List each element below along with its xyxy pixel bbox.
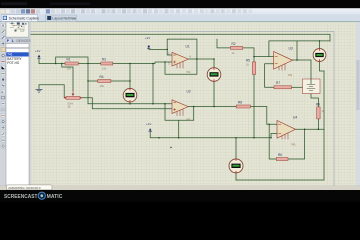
inactive tab: Layout NetView [46,15,77,22]
junction node (130,63.5) [129,63,131,65]
junction node (130,103.8) [129,103,131,105]
voltmeter M3 [313,49,326,62]
wire under U1 loop [165,59,197,74]
wire R7 to battery [292,86,303,88]
status bar [0,186,360,190]
svg-text:U1: U1 [186,45,190,49]
junction node (88,81) [87,80,89,82]
svg-text:R9: R9 [316,103,320,107]
wire ground1 to pot [39,85,66,98]
junction node (171,147.5) [170,147,171,148]
op-amp U2 [172,90,191,122]
junction node (159,137.7) [158,137,160,139]
wire U3 feedback top [269,41,330,57]
filter box [6,43,29,47]
main area background [0,22,360,186]
resistor R9 (vertical) [316,103,325,119]
voltmeter M4 [229,159,243,173]
svg-text:R1: R1 [67,58,71,62]
wire R2 branch [217,39,269,57]
active tab: Schematic Capture [1,15,39,22]
wire U3 pin3 to R7 [265,64,274,88]
op-amp U3 [274,47,293,78]
wire U4 output [296,128,325,130]
bottom black bar with watermark [0,190,360,202]
wire meter M1 vertical [129,64,131,104]
sheet border top [31,31,334,33]
junction node (165,103.8) [164,103,166,105]
resistor R4 [98,75,111,88]
wire U2 loop [165,104,194,121]
junction node (297,60) [296,59,298,61]
wire R3 node down [152,64,154,104]
overview window [6,22,29,37]
resistor R3 [101,58,113,71]
svg-text:MATIC: MATIC [47,194,63,200]
wire meter M4 taps [235,138,237,180]
svg-text:R4: R4 [100,75,104,79]
svg-text:A: A [1,90,3,94]
svg-text:10k: 10k [67,67,72,71]
left icon toolbar [0,22,6,186]
wire U2 loop to bottom rail [178,120,180,137]
power arrow A1 +1V [35,49,41,58]
svg-text:10k: 10k [102,67,107,71]
junction node (153,103.8) [152,103,154,105]
svg-text:U3: U3 [289,47,293,51]
toolbar strip [0,8,360,14]
resistor R1 [65,58,78,71]
junction node (214,106.5) [213,106,215,108]
sheet border right [333,32,335,186]
power arrow A2 +1V [145,36,151,48]
wire U3 fb vertical [296,41,298,60]
wire node up over to x88 [56,57,88,104]
wire U2 output to R8 [188,106,236,108]
svg-text:+1V: +1V [145,36,150,40]
wire R1 to R3 [78,63,101,65]
svg-text:R7: R7 [276,81,280,85]
junction node (153,63.5) [152,63,154,65]
wire pot right to U2 pin3 [81,98,173,109]
junction node (88,63.5) [87,63,89,65]
voltmeter M2 [207,68,221,82]
svg-text:741: 741 [291,143,296,147]
svg-text:U4: U4 [293,116,297,120]
resistor R7 [274,81,292,89]
wire U2 pin2 rail [88,103,172,105]
junction node (196.9,59) [196,58,198,60]
top black bar [0,0,360,8]
resistor R5 (vertical) [246,59,256,75]
resistor R8 [236,100,250,108]
resistor R2 [231,42,243,55]
junction node (319.5,40.9) [319,40,321,42]
junction node (178.7,137.7) [178,137,180,139]
svg-text:R6: R6 [278,153,282,157]
op-amp U4 [277,116,297,147]
junction node (269.2,124.2) [268,123,270,125]
wire R8 to U4 pin2 [250,107,277,125]
wire R5 vertical [253,57,255,138]
svg-text:×: × [73,17,75,21]
junction node (193.7,106.5) [193,106,195,108]
junction node (236,137.7) [235,137,237,139]
wire U4 feedback through R6 [269,124,304,159]
svg-text:U2: U2 [187,90,191,94]
wire U1 output [188,58,214,60]
battery B1 [303,79,321,94]
wire meter M2 taps [213,59,215,107]
device list [6,48,29,185]
wire battery to R9 [311,94,318,107]
canvas with grid [31,22,357,186]
svg-text:741: 741 [186,118,191,122]
wire bottom +1V rail [150,132,271,138]
vertical scrollbar [356,22,360,186]
op-amp U1 [168,45,192,75]
svg-text:R8: R8 [238,100,242,104]
wire U3 out to battery [293,60,312,79]
power arrow A3 +1V [146,122,152,132]
junction node (254,137.7) [253,137,255,139]
junction node (254,56.6) [253,56,255,58]
wire pot wiper [62,64,73,91]
junction node (165,62) [164,61,166,63]
svg-text:741: 741 [186,70,191,74]
wire power arrow2 to U1 pin2 [149,48,172,55]
junction node (167.2,49.4) [166,49,168,51]
svg-text:+1V: +1V [35,49,40,53]
ground G1 [36,89,42,92]
svg-text:ANIMATING: 00:00:00.0: ANIMATING: 00:00:00.0 [8,186,41,190]
junction node (304.6,129.3) [304,129,306,131]
svg-text:+1V: +1V [146,122,151,126]
wire R4 branch [88,80,130,82]
svg-text:R2: R2 [232,42,236,46]
svg-text:×: × [33,17,35,21]
wire U4 pin3 [271,134,277,138]
voltmeter M1 [123,88,137,102]
junction node (318.4,129.3) [318,129,320,131]
junction node (55.7,63.5) [55,63,57,65]
wire R3 node to U1 pin3 [113,62,172,64]
svg-text:SCREENCAST: SCREENCAST [4,194,38,200]
junction node (214,59) [213,58,215,60]
junction node (61.8,63.5) [61,63,63,65]
svg-text:R3: R3 [102,58,106,62]
svg-text:DEVICES: DEVICES [17,39,31,43]
wire R9 bottom [317,119,319,129]
resistor R6 [276,153,288,161]
wire meter M3 taps [320,41,325,71]
svg-text:10k: 10k [100,84,105,88]
junction node (271,137.7) [270,137,272,139]
svg-text:POT-HG: POT-HG [7,61,20,65]
potentiometer RV1 [64,91,81,109]
wire long top rail [31,34,330,41]
wire arrow1 to R1 [39,58,65,63]
devices header P L [6,39,31,44]
wire U1 feedback [167,39,197,59]
wire right rail down [236,71,324,180]
tab bar [0,15,360,22]
junction node (130,81) [129,80,131,82]
svg-text:741: 741 [288,73,293,77]
